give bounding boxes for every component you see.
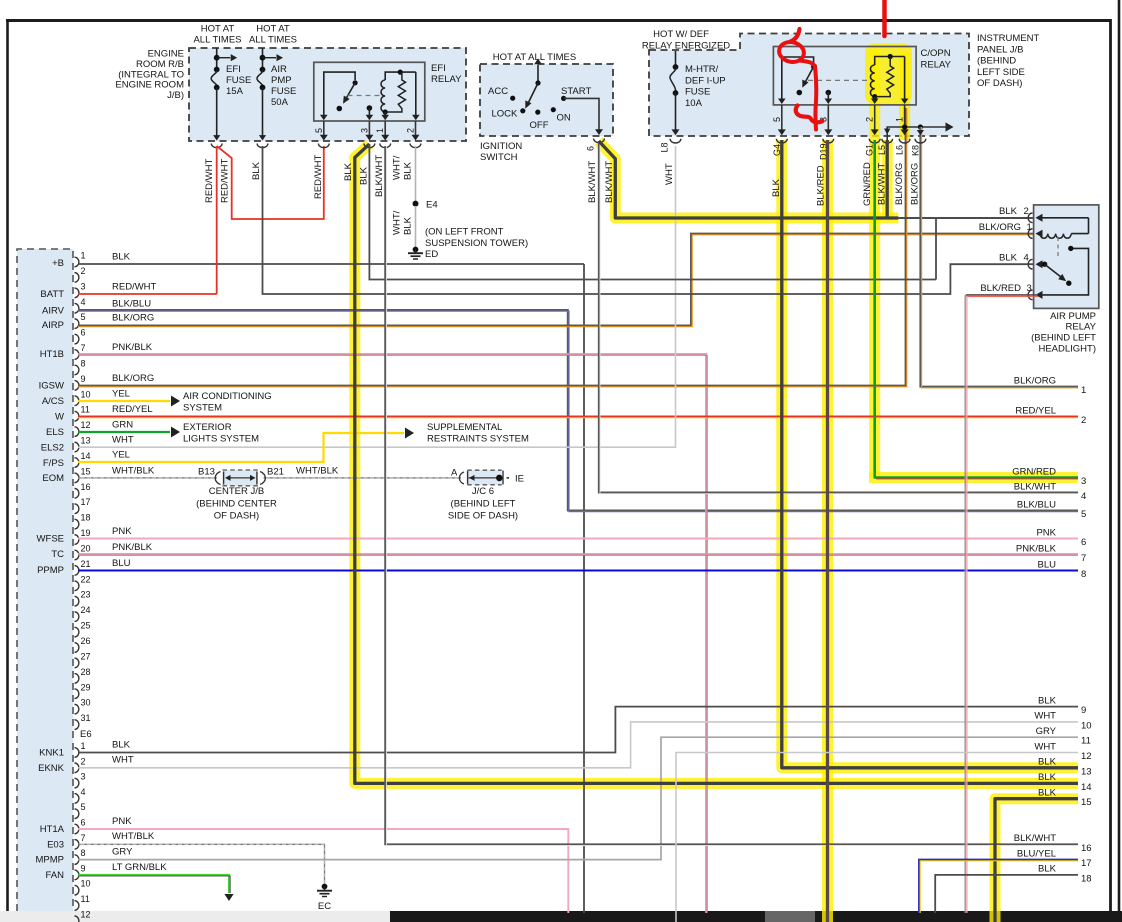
svg-text:4: 4 (1081, 491, 1086, 502)
svg-text:3: 3 (359, 128, 369, 133)
svg-text:BLK/BLU: BLK/BLU (1017, 499, 1056, 510)
svg-text:6: 6 (81, 328, 86, 338)
svg-text:PNK: PNK (112, 526, 132, 537)
svg-text:WHT: WHT (664, 163, 675, 185)
svg-text:PNK/BLK: PNK/BLK (112, 342, 153, 353)
highlighter mark: ignition BLK/WHT wire to C/OPN L5 and air pump relay (599, 141, 899, 218)
svg-text:F/PS: F/PS (43, 458, 64, 469)
svg-text:EC: EC (318, 901, 331, 912)
svg-text:17: 17 (1081, 858, 1092, 869)
wire RED/WHT pin3 BATT from EFI fuse (78, 293, 217, 295)
relay AIR PUMP pin3 contact (1036, 246, 1089, 299)
svg-text:7: 7 (81, 833, 86, 843)
relay EFI switch (320, 72, 358, 120)
svg-text:1: 1 (81, 251, 86, 261)
svg-text:RED/YEL: RED/YEL (1015, 405, 1056, 416)
svg-text:WHT/BLK: WHT/BLK (112, 831, 155, 842)
svg-text:ALL TIMES: ALL TIMES (249, 35, 297, 46)
svg-text:6: 6 (586, 146, 596, 151)
svg-text:HOT W/ DEF: HOT W/ DEF (653, 29, 709, 40)
svg-text:BLK/WHT: BLK/WHT (374, 155, 385, 197)
wire RED/WHT EFI fuse branch to EFI relay pin5 (217, 146, 324, 219)
wire BLK/ORG K8 from bus to right row1 (915, 127, 1078, 388)
svg-text:(BEHIND: (BEHIND (977, 56, 1016, 67)
svg-text:J/C 6: J/C 6 (472, 486, 494, 497)
svg-text:TC: TC (51, 549, 64, 560)
J/B internal bus with arrow to right (884, 122, 954, 134)
wire BLK junction vertical x584 down to bottom (583, 264, 585, 913)
wire WHT row12 feed from bottom x676 (676, 753, 1078, 922)
svg-text:BLK/ORG: BLK/ORG (112, 313, 154, 324)
svg-text:IE: IE (515, 474, 524, 485)
connector CENTER J/B B13-B21 (198, 466, 284, 485)
svg-text:PNK/BLK: PNK/BLK (1016, 543, 1057, 554)
svg-text:BLK: BLK (1038, 695, 1057, 706)
svg-text:BLK/ORG: BLK/ORG (112, 373, 154, 384)
svg-text:2: 2 (1024, 206, 1029, 217)
svg-text:RED/WHT: RED/WHT (220, 158, 231, 203)
connector E6 terminal name labels (36, 258, 65, 881)
svg-text:9: 9 (1081, 705, 1086, 716)
svg-text:WHT: WHT (1034, 741, 1056, 752)
wire GRN pin12 ELS to exterior lights system (78, 431, 170, 433)
wire WHT/BLK E03 lower pin7 to ground EC (78, 844, 325, 883)
svg-text:WHT: WHT (1034, 711, 1056, 722)
relay C/OPN switch (778, 57, 816, 104)
hand annotation red scribble 2 with arrow (777, 29, 822, 130)
svg-text:EXTERIOR: EXTERIOR (183, 422, 232, 433)
ground ED (408, 247, 438, 260)
svg-text:50A: 50A (271, 97, 289, 108)
svg-text:C/OPN: C/OPN (921, 48, 951, 59)
svg-text:30: 30 (81, 698, 91, 708)
wire LT GRN/BLK FAN lower pin9 (78, 875, 229, 893)
svg-text:L6: L6 (895, 145, 905, 155)
svg-text:BLK: BLK (359, 166, 370, 185)
relay EFI pin2 leg (412, 72, 420, 120)
wire WHT EKNK lower pin2 to right row10 (78, 722, 1078, 768)
svg-text:5: 5 (81, 312, 86, 322)
svg-text:16: 16 (81, 482, 91, 492)
svg-text:15A: 15A (226, 86, 244, 97)
svg-text:BLK: BLK (999, 253, 1018, 264)
relay EFI pin3 contact (366, 105, 374, 120)
svg-text:5: 5 (772, 117, 782, 122)
relay AIR PUMP switch (1036, 260, 1072, 286)
svg-text:M-HTR/: M-HTR/ (685, 64, 719, 75)
svg-text:2: 2 (865, 117, 875, 122)
svg-text:E4: E4 (426, 200, 438, 211)
svg-text:BLU/YEL: BLU/YEL (1017, 848, 1056, 859)
svg-text:BLK: BLK (403, 161, 414, 180)
wire BLK/ORG pin5 AIRP to air pump relay pin1 (78, 234, 1038, 326)
svg-text:FUSE: FUSE (226, 75, 251, 86)
svg-text:23: 23 (81, 590, 91, 600)
svg-text:GRY: GRY (1036, 726, 1057, 737)
svg-text:10A: 10A (685, 98, 703, 109)
svg-text:BATT: BATT (40, 289, 64, 300)
relay AIR PUMP box (1034, 205, 1099, 309)
svg-text:BLK/WHT: BLK/WHT (587, 161, 598, 203)
svg-text:1: 1 (81, 741, 86, 751)
svg-text:PNK: PNK (112, 816, 132, 827)
svg-text:27: 27 (81, 651, 91, 661)
svg-text:BLK: BLK (112, 740, 131, 751)
svg-text:BLK/RED: BLK/RED (816, 165, 827, 206)
svg-text:7: 7 (1081, 553, 1086, 564)
wire PNK HT1A lower pin6 down x568 (78, 829, 568, 913)
svg-text:BLK/ORG: BLK/ORG (1014, 375, 1056, 386)
svg-text:LOCK: LOCK (492, 109, 519, 120)
svg-text:E6: E6 (80, 729, 92, 740)
svg-text:ED: ED (425, 249, 438, 260)
wire BLK/WHT ignition pin6 straight to right row4 (599, 141, 1078, 493)
svg-text:13: 13 (1081, 766, 1092, 777)
svg-text:WFSE: WFSE (37, 534, 64, 545)
junction block: ENGINE ROOM R/B dashed box (189, 48, 466, 141)
svg-text:8: 8 (81, 848, 86, 858)
connector E6 ECM dashed box (17, 249, 73, 911)
relay C/OPN resistor (876, 57, 894, 97)
svg-text:PNK/BLK: PNK/BLK (112, 542, 153, 553)
svg-text:2: 2 (1081, 415, 1086, 426)
label INSTRUMENT PANEL J/B (977, 33, 1039, 89)
svg-text:ROOM R/B: ROOM R/B (136, 59, 184, 70)
svg-text:11: 11 (81, 894, 90, 904)
ground EC (317, 884, 332, 912)
svg-text:+B: +B (52, 258, 64, 269)
svg-text:8: 8 (1081, 569, 1086, 580)
svg-text:FUSE: FUSE (685, 87, 710, 98)
wire BLK/WHT L5 stub (882, 133, 893, 143)
svg-text:CENTER J/B: CENTER J/B (209, 486, 264, 497)
svg-text:13: 13 (81, 436, 91, 446)
wire PNK/BLK pin20 TC to right row7 (78, 553, 1078, 555)
svg-text:BLK: BLK (999, 206, 1018, 217)
wire YEL pin10 A/CS to air conditioning system (78, 400, 170, 402)
wire BLU pin21 PPMP to right row8 (78, 569, 1078, 571)
wire WHT/BLK EFI relay pin2 to E4 (415, 146, 417, 201)
svg-text:GRN/RED: GRN/RED (1012, 466, 1056, 477)
svg-text:1: 1 (375, 128, 385, 133)
svg-text:BLK/ORG: BLK/ORG (979, 222, 1021, 233)
fuse AIR PMP 50A (257, 48, 296, 148)
svg-text:3: 3 (81, 772, 86, 782)
fuse EFI 15A (211, 48, 251, 148)
wire BLK KNK1 lower pin1 to right row9 (78, 707, 1078, 753)
relay C/OPN pin3 contact (825, 90, 833, 104)
svg-text:ON: ON (557, 113, 571, 124)
svg-text:PNK: PNK (1036, 527, 1056, 538)
svg-text:ELS: ELS (46, 427, 64, 438)
fuse M-HTR DEF I-UP 10A (670, 51, 726, 143)
svg-text:G1: G1 (865, 144, 875, 156)
relay EFI resistor (387, 72, 406, 112)
svg-text:ACC: ACC (488, 86, 508, 97)
svg-text:OF DASH): OF DASH) (214, 511, 259, 522)
hand annotation red mark top (882, 0, 887, 36)
svg-text:9: 9 (81, 374, 86, 384)
svg-text:BLK/ORG: BLK/ORG (894, 163, 905, 205)
svg-text:J/B): J/B) (167, 90, 184, 101)
svg-text:PPMP: PPMP (37, 565, 64, 576)
svg-text:WHT: WHT (112, 435, 134, 446)
svg-text:START: START (561, 86, 591, 97)
ignition switch feed arrow (534, 59, 542, 84)
svg-text:(BEHIND LEFT: (BEHIND LEFT (1031, 333, 1096, 344)
svg-text:KNK1: KNK1 (39, 748, 64, 759)
wire BLK/RED air pump pin3 down x966 (966, 294, 1038, 296)
wire YEL pin14 F/PS to supplemental restraints system (78, 433, 404, 462)
svg-text:24: 24 (81, 605, 91, 615)
relay AIR PUMP coil (1036, 214, 1089, 238)
svg-text:EKNK: EKNK (38, 763, 65, 774)
svg-text:WHT/: WHT/ (392, 210, 403, 235)
svg-text:HEADLIGHT): HEADLIGHT) (1038, 344, 1096, 355)
wire BLK air pump pin2 branch down to EFI pin3 net (935, 218, 937, 280)
svg-text:2: 2 (81, 266, 86, 276)
wire BLK/ORG pin9 IGSW to C/OPN L6 (78, 108, 906, 386)
svg-text:BLK/ORG: BLK/ORG (910, 163, 921, 205)
svg-text:8: 8 (81, 358, 86, 368)
wire GRY MPMP lower pin8 to right row11 (78, 737, 1078, 859)
svg-text:PANEL J/B: PANEL J/B (977, 44, 1023, 55)
svg-text:10: 10 (1081, 720, 1092, 731)
svg-text:DEF I-UP: DEF I-UP (685, 75, 726, 86)
svg-text:21: 21 (81, 559, 91, 569)
svg-text:GRN: GRN (112, 420, 133, 431)
highlighter mark: C/OPN G4 BLK wire to row13 (782, 140, 1078, 768)
svg-text:(BEHIND LEFT: (BEHIND LEFT (451, 499, 516, 510)
svg-text:12: 12 (81, 909, 91, 919)
svg-text:6: 6 (81, 818, 86, 828)
svg-text:K8: K8 (910, 145, 920, 156)
svg-text:15: 15 (1081, 797, 1092, 808)
svg-text:(ON LEFT FRONT: (ON LEFT FRONT (425, 227, 504, 238)
relay C/OPN box (773, 47, 916, 105)
svg-text:AIR: AIR (271, 64, 287, 75)
svg-text:BLK/RED: BLK/RED (980, 283, 1021, 294)
svg-text:YEL: YEL (112, 450, 130, 461)
svg-text:BLK: BLK (1038, 864, 1057, 875)
svg-text:7: 7 (81, 343, 86, 353)
svg-text:LIGHTS SYSTEM: LIGHTS SYSTEM (183, 434, 259, 445)
svg-text:BLU: BLU (1038, 559, 1057, 570)
wire WHT/BLK B21 to J/C 6 (264, 477, 462, 479)
svg-text:15: 15 (81, 466, 91, 476)
svg-text:6: 6 (1081, 537, 1086, 548)
svg-text:EFI: EFI (431, 63, 446, 74)
svg-text:L8: L8 (660, 142, 670, 152)
relay C/OPN pin stubs through J/B edge (772, 105, 910, 143)
relay EFI box (314, 62, 425, 121)
wire BLK/RED D19 highlighted (826, 140, 829, 922)
highlighter mark: C/OPN coil blob (869, 50, 880, 478)
svg-text:12: 12 (1081, 751, 1092, 762)
wire BLK AIR PMP fuse down to row y294 air pump relay pin4 (263, 146, 1039, 294)
wire BLK/WHT EFI relay pin1 down to right row16 (385, 146, 1078, 844)
svg-text:9: 9 (81, 863, 86, 873)
wire BLK/WHT L5 highlighted stub to bus (886, 140, 889, 217)
svg-text:RED/YEL: RED/YEL (112, 404, 153, 415)
svg-text:2: 2 (81, 756, 86, 766)
relay EFI coil (381, 70, 416, 121)
svg-text:SUSPENSION TOWER): SUSPENSION TOWER) (425, 238, 528, 249)
svg-text:PMP: PMP (271, 75, 292, 86)
wire BLK row15 feed from bottom x995 (over highlight) (995, 799, 1078, 922)
label ENGINE ROOM R/B (115, 49, 184, 102)
svg-text:LEFT SIDE: LEFT SIDE (977, 67, 1025, 78)
svg-text:ALL TIMES: ALL TIMES (193, 35, 241, 46)
svg-text:RELAY: RELAY (431, 74, 462, 85)
svg-text:HOT AT: HOT AT (256, 24, 290, 35)
relay C/OPN pin1 leg (901, 57, 909, 105)
wire BLK G4 highlighted (drawn over highlight) (782, 140, 1078, 768)
svg-text:31: 31 (81, 713, 91, 723)
highlighter mark: row 15 BLK wire (995, 799, 1078, 922)
highlighter mark: EFI relay pin3 BLK wire down to row14 (355, 144, 1078, 783)
relay EFI linkage dashed (348, 95, 382, 97)
svg-text:3: 3 (1027, 283, 1032, 294)
svg-text:ENGINE: ENGINE (148, 49, 184, 60)
ignition switch dashed box (480, 64, 613, 136)
svg-text:RELAY: RELAY (1066, 322, 1097, 333)
svg-text:5: 5 (81, 802, 86, 812)
ignition switch contacts (510, 80, 566, 114)
svg-text:BLK: BLK (1038, 788, 1057, 799)
svg-text:BLK/BLU: BLK/BLU (112, 299, 151, 310)
svg-text:18: 18 (1081, 873, 1092, 884)
svg-text:BLU: BLU (112, 558, 131, 569)
svg-text:29: 29 (81, 682, 91, 692)
svg-text:RELAY: RELAY (921, 60, 952, 71)
svg-text:BLK: BLK (343, 162, 354, 181)
connector J/C 6 IE (451, 468, 524, 485)
relay EFI pin stubs at junction box edge (314, 121, 421, 148)
svg-text:GRN/RED: GRN/RED (862, 162, 873, 206)
svg-text:YEL: YEL (112, 389, 130, 400)
relay C/OPN coil (870, 54, 904, 104)
svg-text:AIRV: AIRV (42, 306, 65, 317)
svg-text:WHT/: WHT/ (392, 155, 403, 180)
svg-text:SWITCH: SWITCH (480, 152, 518, 163)
svg-text:5: 5 (1081, 509, 1086, 520)
wire WHT/BLK pin15 EOM to CENTER J/B B13 (78, 477, 217, 479)
svg-text:RED/WHT: RED/WHT (204, 158, 215, 203)
svg-text:WHT/BLK: WHT/BLK (296, 465, 339, 476)
svg-text:14: 14 (81, 451, 91, 461)
svg-text:IGSW: IGSW (39, 381, 64, 392)
svg-text:HT1A: HT1A (40, 824, 65, 835)
svg-text:1: 1 (1081, 385, 1086, 396)
svg-text:BLK: BLK (403, 216, 414, 235)
wire BLU/YEL row17 feed from bottom x919 (919, 860, 1078, 913)
svg-text:28: 28 (81, 667, 91, 677)
wire BLK/BLU pin4 AIRV to right row5 (78, 310, 1078, 511)
svg-text:RESTRAINTS SYSTEM: RESTRAINTS SYSTEM (427, 434, 529, 445)
svg-text:26: 26 (81, 636, 91, 646)
svg-text:10: 10 (81, 879, 91, 889)
svg-text:BLK: BLK (251, 161, 262, 180)
wire WHT/BLK E4 to ED ground (415, 206, 417, 247)
wire WHT pin13 ELS2 to M-HTR fuse L8 (78, 146, 676, 447)
wire RED/YEL pin11 W to right row2 (78, 416, 1078, 418)
svg-text:GRY: GRY (112, 847, 133, 858)
svg-text:SUPPLEMENTAL: SUPPLEMENTAL (427, 422, 502, 433)
svg-text:INSTRUMENT: INSTRUMENT (977, 33, 1039, 44)
svg-text:WHT/BLK: WHT/BLK (112, 465, 155, 476)
svg-text:BLK/WHT: BLK/WHT (1014, 833, 1056, 844)
svg-text:OF DASH): OF DASH) (977, 78, 1022, 89)
svg-text:3: 3 (81, 281, 86, 291)
right connector row labels 1-18 (1012, 375, 1091, 884)
connector E6 pin arcs and numbers (75, 251, 92, 922)
svg-text:12: 12 (81, 420, 91, 430)
wire BLK pin1 +B to junction x584 (78, 263, 584, 265)
wire ignition START to pin6 (564, 98, 605, 142)
svg-text:2: 2 (406, 128, 416, 133)
svg-text:16: 16 (1081, 843, 1092, 854)
highlighter mark: C/OPN D19 BLK/RED wire (822, 140, 833, 922)
wire BLK row18 feed from bottom x935 (935, 875, 1078, 913)
highlighter mark: GRN/RED row 3 (869, 472, 1078, 483)
svg-text:4: 4 (81, 787, 86, 797)
svg-text:E03: E03 (47, 839, 64, 850)
svg-text:IGNITION: IGNITION (480, 141, 522, 152)
wire PNK/BLK pin7 HT1B down x706 to bottom (78, 354, 706, 913)
svg-text:11: 11 (1081, 736, 1091, 747)
svg-text:FAN: FAN (46, 870, 65, 881)
svg-text:B21: B21 (267, 466, 284, 477)
svg-text:SIDE OF DASH): SIDE OF DASH) (448, 511, 518, 522)
svg-text:18: 18 (81, 513, 91, 523)
svg-text:HOT AT: HOT AT (201, 24, 235, 35)
svg-text:ELS2: ELS2 (41, 443, 64, 454)
svg-text:14: 14 (1081, 782, 1092, 793)
svg-text:RELAY ENERGIZED: RELAY ENERGIZED (642, 41, 730, 52)
wire BLK/WHT ignition pin6 highlighted to C/OPN L5 and air pump pin2 (599, 141, 899, 218)
relay C/OPN linkage dashed (808, 79, 870, 81)
svg-text:OFF: OFF (530, 120, 549, 131)
svg-text:RED/WHT: RED/WHT (112, 282, 157, 293)
svg-text:HOT AT ALL TIMES: HOT AT ALL TIMES (493, 52, 576, 63)
svg-text:17: 17 (81, 497, 91, 507)
svg-text:B13: B13 (198, 466, 215, 477)
svg-text:FUSE: FUSE (271, 86, 296, 97)
svg-text:20: 20 (81, 543, 91, 553)
svg-text:WHT: WHT (112, 755, 134, 766)
node E4 (413, 201, 419, 207)
svg-text:1: 1 (1027, 222, 1032, 233)
svg-text:4: 4 (81, 297, 86, 307)
air pump relay pin arcs (1028, 213, 1032, 300)
svg-text:SYSTEM: SYSTEM (183, 403, 222, 414)
wire PNK pin19 WFSE to right row6 (78, 538, 1078, 540)
svg-text:BLK: BLK (1038, 757, 1057, 768)
svg-text:W: W (55, 412, 64, 423)
wire GRN/RED G1 to right row3 (875, 140, 1078, 478)
svg-text:3: 3 (1081, 476, 1086, 487)
svg-text:LT GRN/BLK: LT GRN/BLK (112, 862, 167, 873)
svg-text:19: 19 (81, 528, 91, 538)
svg-text:25: 25 (81, 621, 91, 631)
svg-text:AIRP: AIRP (42, 320, 64, 331)
svg-text:4: 4 (1024, 253, 1029, 264)
svg-text:A/CS: A/CS (42, 396, 64, 407)
svg-text:BLK: BLK (112, 252, 131, 263)
svg-text:EOM: EOM (42, 473, 64, 484)
relay AIR PUMP linkage dashed (1057, 237, 1059, 259)
